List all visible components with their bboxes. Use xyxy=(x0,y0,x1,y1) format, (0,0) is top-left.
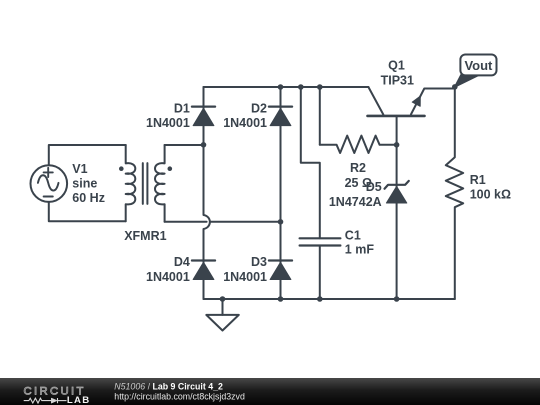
junction node: emitter / Vout / R1 xyxy=(452,84,458,90)
junction node: D5 bottom rail xyxy=(394,296,400,302)
svg-text:60 Hz: 60 Hz xyxy=(72,191,105,205)
wire: right bridge column (D2/D3) xyxy=(280,87,282,299)
wire: top rail node to C1 feed (jog) xyxy=(301,87,320,238)
diode D1 1N4001 xyxy=(192,107,215,126)
svg-text:http://circuitlab.com/ct8ckjsj: http://circuitlab.com/ct8ckjsjd3zvd xyxy=(114,391,245,401)
svg-text:Q1: Q1 xyxy=(388,59,405,73)
svg-text:D1: D1 xyxy=(174,101,190,115)
wire: top rail from D1 to Q1 collector xyxy=(204,86,369,88)
svg-text:TIP31: TIP31 xyxy=(381,74,414,88)
wire: V1 bottom to primary bottom xyxy=(49,202,126,221)
wire: XFMR1 secondary bottom to node B (with gap at crossover) xyxy=(165,221,281,223)
svg-text:C1: C1 xyxy=(345,228,361,242)
CircuitLab logo doodle (resistor + diode) xyxy=(24,398,67,403)
junction node: R2 right / Q1 base / D5 xyxy=(394,142,400,148)
wire: XFMR1 secondary top to node A xyxy=(165,144,204,146)
svg-text:D5: D5 xyxy=(366,180,382,194)
wire: C1 bottom to bottom rail xyxy=(319,246,321,300)
diode D4 1N4001 xyxy=(192,261,215,280)
wire: bottom rail xyxy=(204,298,455,300)
svg-text:V1: V1 xyxy=(72,162,87,176)
V1 labels (name, type, value) xyxy=(72,162,105,205)
junction node: D1 anode / secondary top xyxy=(201,142,207,148)
svg-text:1N4001: 1N4001 xyxy=(223,116,267,130)
wire: left bridge column (D1/D4) with hop over secondary wire xyxy=(204,87,210,299)
svg-text:1N4001: 1N4001 xyxy=(146,270,190,284)
junction node: top rail to R2 feed xyxy=(317,84,323,90)
svg-text:sine: sine xyxy=(72,177,97,191)
ground symbol xyxy=(206,299,239,331)
svg-text:R1: R1 xyxy=(470,173,486,187)
junction node: secondary bottom / D2-D3 xyxy=(278,219,284,225)
D4 labels xyxy=(146,255,190,284)
junction node: top rail to C1 feed xyxy=(298,84,304,90)
svg-text:1N4001: 1N4001 xyxy=(146,116,190,130)
junction node: D2 cathode on top rail xyxy=(278,84,284,90)
svg-text:XFMR1: XFMR1 xyxy=(124,229,166,243)
D2 labels xyxy=(223,101,267,130)
svg-text:R2: R2 xyxy=(350,161,366,175)
svg-text:Vout: Vout xyxy=(464,58,493,73)
D1 labels xyxy=(146,101,190,130)
Q1 labels xyxy=(381,59,414,88)
C1 labels xyxy=(345,228,375,256)
svg-text:N51006 / Lab 9 Circuit 4_2: N51006 / Lab 9 Circuit 4_2 xyxy=(114,382,223,392)
transformer XFMR1 xyxy=(119,145,172,222)
net flag Vout xyxy=(455,55,497,87)
svg-text:D3: D3 xyxy=(251,255,267,269)
junction node: ground on bottom rail xyxy=(220,296,226,302)
junction node: D3 bottom rail xyxy=(278,296,284,302)
wire: V1 top to primary of XFMR1 xyxy=(49,145,126,165)
svg-text:1N4742A: 1N4742A xyxy=(329,195,382,209)
footer bar xyxy=(0,378,540,405)
diode D2 1N4001 xyxy=(269,107,292,126)
resistor R2 xyxy=(320,136,397,153)
resistor R1 xyxy=(446,87,463,299)
svg-text:D4: D4 xyxy=(174,255,190,269)
capacitor C1 xyxy=(300,238,341,245)
svg-text:D2: D2 xyxy=(251,101,267,115)
zener diode D5 1N4742A xyxy=(385,181,409,203)
svg-text:1 mF: 1 mF xyxy=(345,243,375,257)
D5 labels xyxy=(329,180,382,209)
R2 labels xyxy=(345,161,372,190)
R1 labels xyxy=(470,173,511,201)
svg-text:1N4001: 1N4001 xyxy=(223,270,267,284)
voltage source V1 xyxy=(31,165,68,202)
wire: top rail node down to R2 left xyxy=(319,87,321,145)
diode D3 1N4001 xyxy=(269,261,292,280)
D3 labels xyxy=(223,255,267,284)
svg-text:LAB: LAB xyxy=(67,395,91,405)
svg-text:100 kΩ: 100 kΩ xyxy=(470,187,511,201)
transistor Q1 TIP31 xyxy=(368,87,455,116)
wire: Q1 base / D5 column to bottom rail xyxy=(396,116,398,299)
junction node: C1 bottom rail xyxy=(317,296,323,302)
